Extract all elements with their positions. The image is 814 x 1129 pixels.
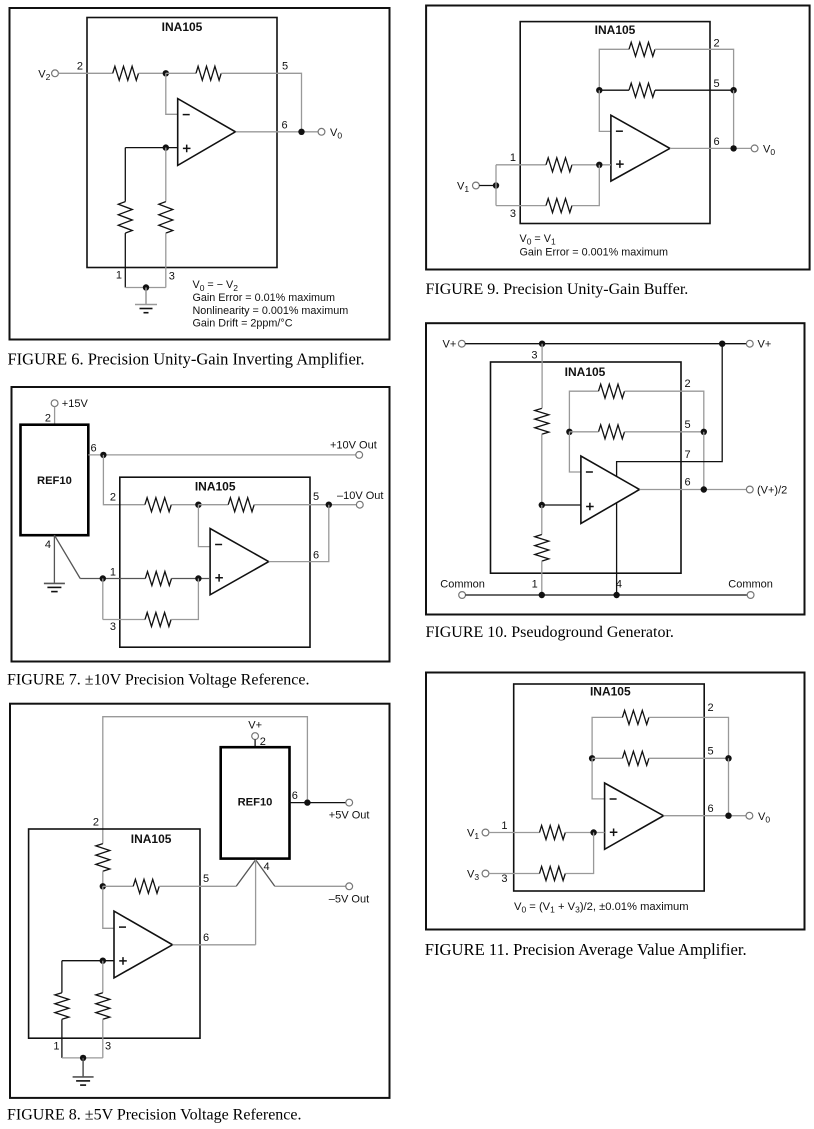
figure 8 border	[10, 704, 390, 1098]
terminal V1 (fig 11)	[467, 828, 489, 842]
svg-text:V1: V1	[467, 828, 479, 842]
label Common left (fig 10)	[440, 579, 485, 591]
resistor R3 input (fig 11)	[540, 867, 566, 881]
pin 1 label (fig 11)	[501, 820, 507, 832]
pin 6 label REF10 (fig 8)	[292, 790, 298, 802]
wire output pin 6 (fig 8)	[173, 944, 256, 946]
wire output pin 6 (fig 6)	[236, 131, 319, 133]
svg-text:3: 3	[531, 350, 537, 362]
wire output loop (fig 9)	[733, 90, 735, 148]
terminal V+ (fig 8)	[252, 733, 259, 740]
node non-inverting (fig 8)	[100, 958, 106, 964]
svg-text:6: 6	[685, 477, 691, 489]
svg-text:Gain Error = 0.001% maximum: Gain Error = 0.001% maximum	[520, 247, 669, 259]
pin 6 label (fig 11)	[708, 803, 714, 815]
resistor sense R5 (fig 10)	[599, 425, 625, 439]
wire R1 to node (fig 9)	[572, 164, 611, 166]
svg-text:Gain Error = 0.01% maximum: Gain Error = 0.01% maximum	[193, 292, 336, 304]
node sense right (fig 11)	[725, 755, 731, 761]
wire REF10 output (fig 7)	[88, 454, 356, 456]
pin 2 label (fig 11)	[708, 702, 714, 714]
node A (fig 6 summing node)	[163, 70, 169, 76]
terminal V+ right (fig 10)	[746, 339, 771, 351]
op-amp U1 (fig 10)	[581, 456, 640, 524]
ground (fig 8)	[73, 1058, 94, 1085]
caption FIGURE 11	[425, 940, 747, 959]
figure 10 border	[426, 323, 805, 614]
svg-text:2: 2	[110, 492, 116, 504]
svg-text:6: 6	[313, 549, 319, 561]
pin 6 label (fig 10)	[685, 477, 691, 489]
svg-text:+10V Out: +10V Out	[330, 439, 377, 451]
svg-text:V+: V+	[443, 339, 457, 351]
wire V1 input (fig 11)	[489, 832, 540, 834]
resistor divider top (fig 10)	[535, 408, 549, 434]
wire pin 2 right (fig 11)	[649, 717, 729, 758]
svg-text:5: 5	[708, 746, 714, 758]
wire pin 5 (fig 8)	[159, 885, 236, 887]
resistor feedback R2 (fig 10)	[599, 384, 625, 398]
op-amp U1 (fig 7)	[210, 529, 269, 595]
wire V2 input	[58, 72, 112, 74]
svg-text:1: 1	[110, 566, 116, 578]
wire pin 4 diag right (fig 8)	[256, 860, 275, 887]
wire pin 4 diag left (fig 8)	[236, 860, 255, 887]
pin 5 label (fig 6)	[282, 60, 288, 72]
caption FIGURE 9	[426, 281, 689, 298]
wire R1 to node (fig 11)	[565, 832, 604, 834]
pin 7 label (fig 10)	[685, 449, 691, 461]
wire pin 5 out (fig 7)	[254, 504, 356, 506]
svg-text:INA105: INA105	[195, 479, 236, 493]
svg-text:5: 5	[714, 78, 720, 90]
pin 4 label REF10 (fig 8)	[264, 861, 270, 873]
resistor R2 input (fig 8)	[96, 844, 110, 872]
caption FIGURE 10	[426, 624, 674, 641]
pin 5 label (fig 9)	[714, 78, 720, 90]
svg-text:2: 2	[714, 38, 720, 50]
terminal +10V Out (fig 7)	[330, 439, 377, 458]
wire +15V stem (fig 7)	[54, 407, 56, 425]
node inverting net (fig 7)	[195, 502, 201, 508]
wire pin 5 (fig 11)	[592, 757, 728, 759]
IC U1 INA105 boundary (fig 7)	[120, 477, 310, 647]
svg-text:3: 3	[105, 1040, 111, 1052]
resistor R1 (fig 7)	[145, 572, 171, 586]
svg-text:6: 6	[282, 120, 288, 132]
wire REF10 output (fig 8)	[290, 802, 346, 804]
caption FIGURE 7	[7, 672, 310, 689]
pin 3 label (fig 8)	[105, 1040, 111, 1052]
node pin5 left (fig 9)	[596, 87, 602, 93]
wire +10V to pin 2 (fig 7)	[103, 455, 144, 505]
svg-text:V+: V+	[758, 339, 772, 351]
wire R3 to pin 1	[124, 233, 126, 287]
svg-text:INA105: INA105	[131, 832, 172, 846]
svg-text:V3: V3	[467, 869, 479, 883]
wire pin 2 feedback right (fig 9)	[655, 49, 734, 90]
wire pin 2 left (fig 11)	[592, 717, 622, 758]
svg-text:V1: V1	[457, 180, 469, 194]
wire V1 (fig 9)	[479, 185, 496, 187]
node -10V (fig 7)	[326, 502, 332, 508]
wire pin 5 feedback	[221, 73, 301, 132]
node +5V (fig 8)	[304, 799, 310, 805]
figure 9 border	[426, 6, 809, 270]
terminal Common right (fig 10)	[747, 592, 754, 599]
pin 3 label (fig 11)	[501, 873, 507, 885]
note equations (fig 9)	[520, 233, 669, 259]
node +10V (fig 7)	[100, 452, 106, 458]
IC U1 INA105 boundary (fig 11)	[514, 684, 705, 891]
wire to R3 (fig 6)	[124, 148, 126, 202]
wire R1 to + (fig 7)	[172, 578, 211, 580]
wire pins 1-3 join (fig 6)	[125, 287, 166, 289]
wire right leg (fig 8)	[102, 961, 104, 993]
op-amp U1 (fig 6)	[178, 99, 236, 166]
svg-text:2: 2	[93, 817, 99, 829]
pin 6 label (fig 6)	[282, 120, 288, 132]
terminal V1 (fig 9)	[457, 180, 479, 194]
wire sense to output (fig 11)	[728, 758, 730, 815]
svg-text:–10V Out: –10V Out	[337, 490, 383, 502]
wire V3 input (fig 11)	[489, 873, 540, 875]
svg-text:6: 6	[91, 443, 97, 455]
wire pin 2 left (fig 10)	[569, 391, 598, 432]
svg-text:1: 1	[116, 270, 122, 282]
label V+ (fig 8)	[248, 720, 262, 732]
svg-text:6: 6	[714, 136, 720, 148]
node midpoint (fig 10)	[539, 502, 545, 508]
svg-text:1: 1	[501, 820, 507, 832]
svg-text:V0 = V1: V0 = V1	[520, 233, 556, 247]
wire R4 to pin 3	[165, 233, 167, 287]
svg-text:V0 = (V1 + V3)/2, ±0.01% maxim: V0 = (V1 + V3)/2, ±0.01% maximum	[514, 901, 689, 915]
wire pin 1 drop (fig 10)	[541, 561, 543, 595]
figure 7 border	[12, 387, 390, 662]
voltage reference U2 REF10 (fig 7)	[21, 425, 89, 536]
node rail pin1 (fig 10)	[539, 592, 545, 598]
svg-text:INA105: INA105	[162, 20, 203, 34]
wire pin 7 supply (fig 10)	[617, 344, 723, 477]
pin 5 label (fig 7)	[313, 491, 319, 503]
pin 6 label (fig 9)	[714, 136, 720, 148]
svg-text:2: 2	[708, 702, 714, 714]
node pin1 gnd (fig 7)	[100, 575, 106, 581]
svg-text:FIGURE 7. ±10V Precision Volta: FIGURE 7. ±10V Precision Voltage Referen…	[7, 672, 310, 689]
svg-text:Common: Common	[728, 579, 773, 591]
svg-text:Common: Common	[440, 579, 485, 591]
pin 1 label (fig 10)	[532, 579, 538, 591]
svg-text:2: 2	[45, 412, 51, 424]
svg-text:INA105: INA105	[595, 23, 636, 37]
pin 2 label INA105 (fig 8)	[93, 817, 99, 829]
wire gnd riser (fig 7)	[102, 579, 104, 620]
resistor feedback R2 (fig 9)	[629, 42, 655, 56]
svg-text:+15V: +15V	[62, 398, 89, 410]
caption FIGURE 6	[8, 350, 365, 369]
resistor R1 leg (fig 8)	[55, 993, 69, 1020]
pin 1 label (fig 7)	[110, 566, 116, 578]
wire pin 4 drop (fig 10)	[616, 503, 618, 595]
wire V+ stem (fig 8)	[254, 740, 256, 748]
IC U1 INA105 boundary (fig 9)	[520, 22, 710, 224]
pin 3 label (fig 9)	[510, 208, 516, 220]
figure 11 border	[426, 673, 805, 930]
svg-text:REF10: REF10	[238, 797, 273, 809]
node V1 split (fig 9)	[493, 182, 499, 188]
wire inverting stub (fig 8)	[103, 886, 114, 928]
wire R1 to join (fig 8)	[61, 1019, 63, 1058]
svg-text:1: 1	[510, 152, 516, 164]
svg-text:FIGURE 11. Precision Average V: FIGURE 11. Precision Average Value Ampli…	[425, 940, 747, 959]
terminal -10V Out (fig 7)	[337, 490, 383, 508]
wire diagonal pin 4 (fig 7)	[54, 535, 80, 578]
pin 3 label (fig 7)	[110, 621, 116, 633]
svg-text:INA105: INA105	[565, 365, 606, 379]
IC U1 INA105 boundary (fig 6)	[87, 18, 277, 268]
pin 2 label (fig 6)	[77, 60, 83, 72]
svg-text:2: 2	[685, 378, 691, 390]
terminal V0 (fig 11)	[746, 811, 770, 825]
wire pin 2 feedback left (fig 9)	[599, 49, 629, 90]
wire R1 to node A	[139, 72, 166, 74]
svg-text:FIGURE 9. Precision Unity-Gain: FIGURE 9. Precision Unity-Gain Buffer.	[426, 281, 689, 298]
svg-text:7: 7	[685, 449, 691, 461]
node non-inverting (fig 9)	[596, 162, 602, 168]
svg-text:5: 5	[282, 60, 288, 72]
pin 5 label (fig 11)	[708, 746, 714, 758]
svg-text:3: 3	[510, 208, 516, 220]
wire sense to output (fig 10)	[703, 432, 705, 490]
svg-text:V2: V2	[38, 68, 50, 82]
node non-inverting (fig 11)	[590, 829, 596, 835]
resistor R1 (fig 6)	[113, 66, 139, 80]
wire -5V out (fig 8)	[275, 885, 346, 887]
svg-text:6: 6	[708, 803, 714, 815]
node sense left (fig 10)	[566, 429, 572, 435]
svg-text:3: 3	[110, 621, 116, 633]
pin 6 label (fig 8)	[203, 932, 209, 944]
wire V1 riser (fig 9)	[495, 165, 497, 206]
svg-text:6: 6	[292, 790, 298, 802]
wire R3 up (fig 7)	[171, 579, 198, 620]
svg-text:3: 3	[501, 873, 507, 885]
resistor sense R5 (fig 9)	[629, 83, 655, 97]
note equations (fig 6)	[193, 279, 349, 329]
wire inverting stub (fig 11)	[592, 758, 605, 799]
note equation (fig 11)	[514, 901, 689, 915]
wire V+ rail (fig 10)	[465, 343, 746, 345]
resistor R3 leg (fig 8)	[96, 993, 110, 1020]
wire inverting stub (fig 10)	[569, 432, 581, 472]
pin 2 label REF10 (fig 7)	[45, 412, 51, 424]
svg-text:4: 4	[45, 539, 51, 551]
svg-text:V0 = − V2: V0 = − V2	[193, 279, 239, 293]
svg-text:1: 1	[532, 579, 538, 591]
pin 3 label (fig 10)	[531, 350, 537, 362]
svg-text:FIGURE 10. Pseudoground Genera: FIGURE 10. Pseudoground Generator.	[426, 624, 674, 641]
resistor R1 input (fig 9)	[546, 158, 572, 172]
svg-text:–5V Out: –5V Out	[329, 894, 369, 906]
terminal V+ left (fig 10)	[443, 339, 466, 351]
pin 1 label (fig 6)	[116, 270, 122, 282]
wire node A to R2	[166, 72, 196, 74]
wire R2a to node (fig 7)	[171, 504, 198, 506]
resistor sense R5 (fig 11)	[622, 751, 649, 765]
svg-text:+5V Out: +5V Out	[329, 809, 370, 821]
terminal V3 (fig 11)	[467, 869, 489, 883]
svg-text:V+: V+	[248, 720, 262, 732]
node rail pin7 (fig 10)	[719, 341, 725, 347]
node non-inverting (fig 7)	[195, 575, 201, 581]
pin 3 label (fig 6)	[169, 270, 175, 282]
svg-text:3: 3	[169, 270, 175, 282]
wire divider mid (fig 10)	[541, 434, 543, 505]
ground (fig 6)	[135, 288, 157, 313]
voltage reference U2 REF10 (fig 8)	[221, 747, 290, 858]
node inverting net (fig 8)	[100, 883, 106, 889]
svg-text:5: 5	[313, 491, 319, 503]
resistor R2b feedback (fig 7)	[228, 498, 254, 512]
label Common right (fig 10)	[728, 579, 773, 591]
node C non-inverting (fig 6)	[163, 144, 169, 150]
svg-text:INA105: INA105	[590, 685, 631, 699]
wire inverting stub (fig 6)	[166, 73, 178, 114]
wire divider lower (fig 10)	[541, 505, 543, 535]
terminal V2	[38, 68, 58, 82]
resistor R5 sense (fig 8)	[133, 879, 159, 893]
pin 2 label REF10 (fig 8)	[260, 736, 266, 748]
svg-text:2: 2	[77, 60, 83, 72]
resistor R3 (fig 6)	[118, 202, 132, 234]
pin 1 label (fig 9)	[510, 152, 516, 164]
resistor R3 (fig 7)	[145, 613, 171, 627]
wire midpoint to + (fig 10)	[542, 504, 581, 506]
wire non-inverting input (fig 8)	[62, 960, 114, 962]
wire R2 to node (fig 8)	[102, 871, 104, 886]
caption FIGURE 8	[7, 1107, 302, 1124]
pin 2 label INA105 (fig 7)	[110, 492, 116, 504]
terminal (V+)/2 out (fig 10)	[746, 484, 787, 496]
wire pin 3 (fig 9)	[496, 205, 546, 207]
resistor feedback R2 (fig 11)	[622, 710, 649, 724]
svg-text:1: 1	[53, 1040, 59, 1052]
pin 2 label (fig 10)	[685, 378, 691, 390]
wire Common rail (fig 10)	[466, 594, 748, 596]
terminal V0 (fig 6)	[318, 127, 342, 141]
wire pin 5 (fig 10)	[569, 431, 703, 433]
resistor R2a (fig 7)	[145, 498, 171, 512]
pin 5 label (fig 8)	[203, 873, 209, 885]
node ground junction (fig 8)	[80, 1055, 86, 1061]
wire output pin 6 (fig 9)	[670, 147, 751, 149]
wire top feedback (fig 8)	[103, 717, 308, 844]
svg-text:V0: V0	[758, 811, 770, 825]
wire legs join (fig 8)	[62, 1057, 103, 1059]
wire pin 1 (fig 9)	[496, 164, 546, 166]
wire pin 3 drop (fig 10)	[541, 344, 543, 409]
pin 6 label REF10 (fig 7)	[91, 443, 97, 455]
node pin5 right (fig 9)	[730, 87, 736, 93]
IC U1 INA105 boundary (fig 8)	[29, 829, 200, 1038]
IC U1 INA105 boundary (fig 10)	[491, 362, 682, 573]
node rail pin4 (fig 10)	[613, 592, 619, 598]
wire R3 to join (fig 8)	[102, 1019, 104, 1058]
wire pin 4 drop (fig 8)	[255, 860, 257, 945]
wire pin 5 (fig 9)	[599, 89, 733, 91]
node output (fig 10)	[701, 486, 707, 492]
terminal Common left (fig 10)	[459, 592, 466, 599]
resistor R4 (fig 6)	[159, 202, 173, 234]
node sense right (fig 10)	[701, 429, 707, 435]
wire R3 riser (fig 11)	[565, 833, 593, 874]
pin 2 label (fig 9)	[714, 38, 720, 50]
svg-text:FIGURE 8. ±5V Precision Voltag: FIGURE 8. ±5V Precision Voltage Referenc…	[7, 1107, 302, 1124]
wire pin 3 (fig 7)	[103, 619, 145, 621]
resistor divider bottom (fig 10)	[535, 535, 549, 562]
wire output pin 6 (fig 11)	[664, 815, 747, 817]
terminal +15V (fig 7)	[51, 398, 88, 410]
op-amp U1 (fig 11)	[605, 783, 664, 849]
wire pin 1 (fig 7)	[80, 578, 145, 580]
wire non-inverting input (fig 6)	[125, 147, 177, 149]
wire pin 2 right (fig 10)	[625, 391, 704, 432]
svg-text:5: 5	[685, 419, 691, 431]
svg-text:V0: V0	[763, 144, 775, 158]
terminal V0 (fig 9)	[751, 144, 775, 158]
svg-text:Gain Drift = 2ppm/°C: Gain Drift = 2ppm/°C	[193, 318, 293, 330]
svg-text:Nonlinearity = 0.001% maximum: Nonlinearity = 0.001% maximum	[193, 305, 349, 317]
resistor R2 feedback (fig 6)	[196, 66, 221, 80]
wire node to R5 (fig 8)	[103, 885, 133, 887]
wire inverting stub (fig 9)	[599, 90, 611, 131]
wire R3 up to node (fig 9)	[572, 165, 599, 206]
terminal -5V Out (fig 8)	[329, 883, 369, 906]
wire left leg (fig 8)	[61, 961, 63, 993]
wire node to R2b (fig 7)	[198, 504, 228, 506]
node B output (fig 6)	[298, 129, 304, 135]
figure 6 border	[10, 8, 390, 340]
svg-text:REF10: REF10	[37, 475, 72, 487]
pin 6 label (fig 7)	[313, 549, 319, 561]
wire REF10 gnd stem (fig 7)	[53, 535, 55, 583]
pin 4 label (fig 10)	[616, 579, 622, 591]
svg-text:4: 4	[616, 579, 622, 591]
node output (fig 11)	[725, 813, 731, 819]
wire inverting stub (fig 7)	[198, 505, 210, 547]
node sense left (fig 11)	[589, 755, 595, 761]
svg-text:FIGURE 6. Precision Unity-Gain: FIGURE 6. Precision Unity-Gain Inverting…	[8, 350, 365, 369]
node rail pin3 (fig 10)	[539, 341, 545, 347]
op-amp U1 (fig 8)	[114, 911, 173, 978]
svg-text:5: 5	[203, 873, 209, 885]
resistor R1 input (fig 11)	[540, 826, 566, 840]
svg-text:6: 6	[203, 932, 209, 944]
pin 1 label (fig 8)	[53, 1040, 59, 1052]
pin 5 label (fig 10)	[685, 419, 691, 431]
wire output pin 6 (fig 10)	[640, 489, 747, 491]
node output (fig 9)	[730, 145, 736, 151]
node D ground junction (fig 6)	[143, 284, 149, 290]
resistor R3 input (fig 9)	[546, 199, 572, 213]
op-amp U1 (fig 9)	[611, 115, 670, 181]
svg-text:(V+)/2: (V+)/2	[757, 484, 787, 496]
ground (fig 7)	[44, 583, 65, 592]
pin 4 label REF10 (fig 7)	[45, 539, 51, 551]
wire output pin 6 (fig 7)	[269, 505, 329, 562]
svg-text:V0: V0	[330, 127, 342, 141]
